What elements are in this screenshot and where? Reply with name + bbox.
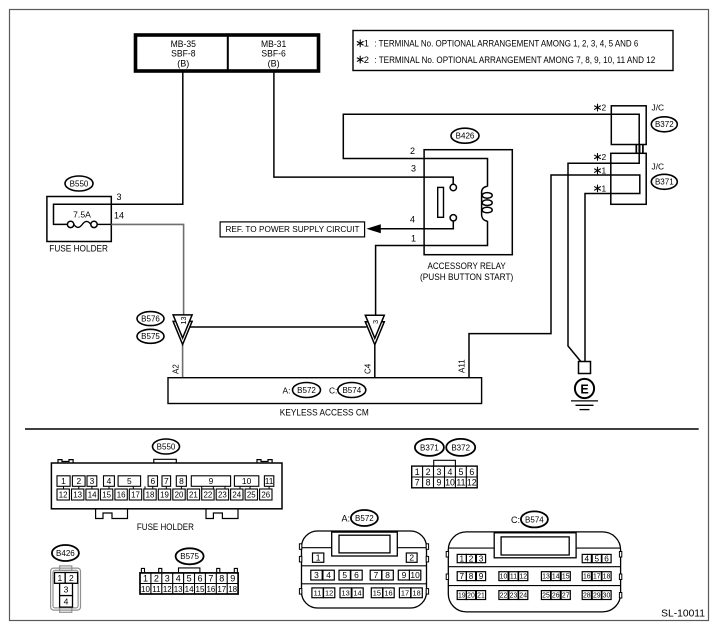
svg-text:A11: A11 (458, 359, 467, 373)
wire in-line connector to terminal A2 (gray) (182, 344, 184, 378)
svg-text:3: 3 (90, 476, 95, 486)
REF. TO POWER SUPPLY CIRCUIT box (220, 222, 365, 237)
wire joining the two in-line connector symbols (190, 326, 367, 328)
svg-text:7: 7 (374, 570, 379, 580)
ground symbol E (575, 379, 594, 398)
svg-text:A:: A: (283, 385, 291, 395)
svg-text:17: 17 (593, 574, 601, 581)
svg-text:23: 23 (218, 490, 227, 499)
connector label B574 (schematic) (338, 383, 366, 398)
relay B426 box (424, 150, 512, 255)
wire fuse holder pin 14 to in-line connector B576/B575 pin 13 (gray) (97, 223, 111, 225)
svg-text:SBF-8: SBF-8 (171, 49, 195, 59)
svg-text:1: 1 (61, 476, 66, 486)
svg-text:9: 9 (479, 572, 484, 581)
svg-text:MB-35: MB-35 (171, 39, 196, 49)
connector label B372 (651, 117, 677, 132)
in-line connector B576/B575 pin 13 (triangle) (173, 315, 192, 345)
svg-text:J/C: J/C (652, 103, 665, 113)
svg-text:3: 3 (64, 585, 69, 595)
wire MB-35 SBF-8 to fuse holder pin 3 (54, 72, 183, 224)
svg-text:18: 18 (146, 490, 155, 499)
svg-text:1: 1 (411, 234, 416, 244)
svg-text:KEYLESS ACCESS CM: KEYLESS ACCESS CM (280, 407, 369, 417)
svg-text:4: 4 (326, 570, 331, 580)
svg-text:13: 13 (542, 574, 550, 581)
svg-text:16: 16 (117, 490, 126, 499)
svg-text:17: 17 (217, 585, 226, 594)
svg-text:3: 3 (371, 320, 380, 324)
svg-text:14: 14 (88, 490, 97, 499)
net label *2 (at B372) (595, 104, 601, 111)
svg-text:8: 8 (426, 478, 431, 488)
svg-text:B574: B574 (525, 515, 544, 524)
svg-text:FUSE HOLDER: FUSE HOLDER (49, 244, 108, 254)
svg-text:3: 3 (165, 574, 170, 584)
svg-text:15: 15 (562, 574, 570, 581)
svg-text:21: 21 (189, 490, 198, 499)
connector label B575 (view) (176, 548, 204, 564)
svg-text:B576: B576 (141, 315, 160, 324)
keyless access CM box (168, 378, 482, 404)
svg-text:14: 14 (552, 574, 560, 581)
svg-text:12: 12 (467, 478, 477, 488)
svg-text:C4: C4 (364, 363, 373, 374)
svg-text:SL-10011: SL-10011 (661, 609, 705, 620)
svg-text:26: 26 (261, 490, 270, 499)
svg-text:5: 5 (127, 476, 132, 486)
svg-text:13: 13 (174, 585, 183, 594)
svg-text:ACCESSORY RELAY: ACCESSORY RELAY (428, 261, 506, 271)
connector label B371 (view) (415, 439, 444, 456)
svg-text:7.5A: 7.5A (73, 210, 91, 220)
B572 view row C pins (312, 588, 422, 598)
svg-text:7: 7 (208, 574, 213, 584)
svg-text:10: 10 (500, 574, 508, 581)
B550 view row 2 pins (57, 489, 272, 500)
svg-text:2: 2 (426, 467, 431, 477)
B574 view row 2 pins (457, 572, 611, 581)
B572 view row B pins (311, 570, 421, 580)
ground terminal block (579, 362, 591, 374)
B371/B372 grid row 1 pins (415, 467, 475, 477)
wire relay pin 4 to power supply circuit (arrow) (369, 221, 454, 229)
svg-text:8: 8 (219, 574, 224, 584)
in-line connector pin 3 (triangle) (365, 315, 384, 345)
svg-text:9: 9 (437, 478, 442, 488)
connector view B572 (299, 531, 428, 608)
connector label B426 (451, 128, 479, 143)
B575 view row 1 pins (143, 574, 235, 584)
svg-text:REF. TO POWER SUPPLY CIRCUIT: REF. TO POWER SUPPLY CIRCUIT (226, 224, 361, 234)
svg-text:13: 13 (341, 589, 349, 598)
svg-text:24: 24 (232, 490, 241, 499)
svg-text:5: 5 (595, 555, 600, 564)
svg-text:24: 24 (519, 593, 527, 600)
svg-text:28: 28 (583, 593, 591, 600)
svg-text:19: 19 (160, 490, 169, 499)
svg-text:4: 4 (448, 467, 453, 477)
svg-text:B372: B372 (451, 443, 470, 452)
svg-text:B426: B426 (56, 549, 75, 558)
svg-text:18: 18 (412, 589, 420, 598)
svg-text:11: 11 (314, 589, 322, 598)
svg-text:8: 8 (179, 476, 184, 486)
B371/B372 grid row 2 pins (415, 478, 477, 488)
svg-text:17: 17 (131, 490, 140, 499)
svg-text:1: 1 (602, 166, 607, 176)
svg-text:(B): (B) (268, 59, 280, 69)
svg-text:C:: C: (329, 385, 337, 395)
connector label B426 (view) (52, 545, 79, 561)
svg-text:B550: B550 (70, 179, 89, 188)
svg-text:30: 30 (603, 593, 611, 600)
svg-text:25: 25 (247, 490, 256, 499)
svg-text:11: 11 (456, 478, 465, 488)
svg-text:E: E (580, 382, 588, 396)
B574 view row 1 pins (457, 554, 611, 563)
svg-text:: TERMINAL No. OPTIONAL ARRANG: : TERMINAL No. OPTIONAL ARRANGEMENT AMON… (374, 54, 655, 65)
svg-text:11: 11 (265, 476, 274, 486)
svg-text:1: 1 (316, 553, 321, 563)
svg-text:7: 7 (164, 476, 169, 486)
svg-text:B550: B550 (157, 442, 176, 451)
svg-text:15: 15 (102, 490, 111, 499)
junction connector B372 box (611, 106, 646, 145)
svg-text:6: 6 (604, 555, 609, 564)
svg-text:5: 5 (458, 467, 463, 477)
svg-text:10: 10 (410, 570, 420, 580)
svg-text:12: 12 (163, 585, 172, 594)
connector label B575 (137, 329, 164, 343)
connector label B572 (schematic) (293, 383, 321, 398)
svg-text:12: 12 (59, 490, 68, 499)
svg-text:19: 19 (458, 593, 466, 600)
svg-text:23: 23 (510, 593, 518, 600)
svg-text:(PUSH BUTTON START): (PUSH BUTTON START) (420, 272, 513, 282)
wire MB-31 SBF-6 to accessory relay pin 3 (274, 72, 453, 184)
fuse box MB-35 / MB-31 (SBF) (136, 35, 319, 71)
svg-text:2: 2 (69, 573, 74, 583)
svg-text:2: 2 (409, 553, 414, 563)
svg-text:4: 4 (410, 215, 415, 225)
svg-text:7: 7 (415, 478, 420, 488)
svg-text:8: 8 (469, 572, 474, 581)
connector label B372 (view) (446, 439, 475, 456)
svg-text:B575: B575 (180, 552, 199, 561)
svg-text:5: 5 (342, 570, 347, 580)
svg-text:1: 1 (460, 555, 465, 564)
svg-text:9: 9 (230, 574, 235, 584)
svg-text:4: 4 (64, 596, 69, 606)
wire terminal A11 to J/C B371 and to ground (469, 175, 640, 378)
connector view B575 (140, 568, 238, 594)
wire relay pin 2 (coil) to J/C B372 (343, 114, 639, 361)
svg-text:2: 2 (602, 152, 607, 162)
svg-text:14: 14 (185, 585, 194, 594)
B572 view row A pins (313, 553, 418, 563)
net label *1 (upper) (595, 167, 601, 174)
junction connector B371 box (611, 153, 646, 204)
svg-text:10: 10 (141, 585, 150, 594)
svg-text:20: 20 (467, 593, 475, 600)
svg-text:3: 3 (117, 192, 122, 202)
svg-text:11: 11 (510, 574, 517, 581)
svg-text:9: 9 (402, 570, 407, 580)
svg-text:12: 12 (325, 589, 333, 598)
connector label B550 (65, 176, 93, 191)
svg-text:B371: B371 (420, 443, 439, 452)
svg-text:20: 20 (175, 490, 184, 499)
svg-text:MB-31: MB-31 (261, 39, 286, 49)
svg-text:6: 6 (469, 467, 474, 477)
svg-text:2: 2 (410, 146, 415, 156)
svg-text:J/C: J/C (652, 162, 665, 172)
svg-text:4: 4 (107, 476, 112, 486)
svg-text:3: 3 (314, 570, 319, 580)
svg-text:18: 18 (603, 574, 611, 581)
B550 view row connector ticks (64, 486, 270, 489)
svg-text:2: 2 (469, 555, 474, 564)
svg-text:3: 3 (411, 164, 416, 174)
svg-text:29: 29 (593, 593, 601, 600)
svg-text:B575: B575 (141, 332, 160, 341)
B550 view row 1 pins (57, 476, 274, 487)
svg-text:2: 2 (76, 476, 81, 486)
svg-text:12: 12 (519, 574, 527, 581)
svg-text:16: 16 (206, 585, 215, 594)
svg-text:: TERMINAL No. OPTIONAL ARRANG: : TERMINAL No. OPTIONAL ARRANGEMENT AMON… (374, 38, 638, 49)
svg-text:6: 6 (354, 570, 359, 580)
svg-text:25: 25 (542, 593, 550, 600)
svg-text:8: 8 (385, 570, 390, 580)
fuse 7.5A symbol (67, 210, 97, 228)
svg-text:C:: C: (511, 515, 520, 525)
svg-text:2: 2 (154, 574, 159, 584)
svg-text:17: 17 (401, 589, 409, 598)
svg-text:22: 22 (204, 490, 213, 499)
svg-text:2: 2 (364, 54, 369, 65)
svg-text:1: 1 (58, 573, 63, 583)
net label *2 (at B371) (595, 154, 601, 161)
svg-text:7: 7 (460, 572, 465, 581)
svg-text:6: 6 (197, 574, 202, 584)
relay coil (482, 186, 488, 221)
svg-text:13: 13 (179, 317, 188, 325)
svg-text:6: 6 (150, 476, 155, 486)
connector label B574 (view) (521, 511, 548, 527)
svg-text:27: 27 (562, 593, 570, 600)
ground hatch (571, 401, 598, 410)
svg-text:5: 5 (187, 574, 192, 584)
svg-text:B426: B426 (456, 132, 475, 141)
note box: terminal arrangement notes (353, 31, 673, 71)
svg-text:(B): (B) (177, 59, 189, 69)
svg-text:A:: A: (342, 513, 351, 523)
svg-text:21: 21 (477, 593, 485, 600)
svg-text:16: 16 (583, 574, 591, 581)
J/C bus bar links (636, 145, 643, 154)
svg-text:1: 1 (143, 574, 148, 584)
svg-text:9: 9 (209, 476, 214, 486)
svg-text:14: 14 (114, 211, 124, 221)
svg-text:1: 1 (415, 467, 420, 477)
svg-text:B372: B372 (655, 120, 674, 129)
svg-text:1: 1 (364, 38, 369, 49)
connector label B550 (view) (153, 439, 180, 454)
section separator line (25, 428, 699, 430)
svg-text:14: 14 (353, 589, 361, 598)
svg-text:10: 10 (445, 478, 455, 488)
svg-text:B572: B572 (355, 514, 374, 523)
svg-text:15: 15 (196, 585, 205, 594)
svg-text:3: 3 (437, 467, 442, 477)
svg-text:B574: B574 (342, 386, 361, 395)
svg-text:1: 1 (602, 183, 607, 193)
svg-text:10: 10 (242, 476, 252, 486)
fuse holder box (47, 197, 111, 242)
svg-text:B572: B572 (297, 386, 316, 395)
relay contact circles (450, 184, 456, 190)
connector view B574 (446, 532, 622, 612)
connector label B371 (651, 174, 677, 189)
svg-text:26: 26 (552, 593, 560, 600)
connector label B576 (137, 312, 164, 326)
wire relay pin 1 to in-line connector pin 3 and terminal C4 (376, 221, 488, 315)
svg-text:FUSE HOLDER: FUSE HOLDER (137, 522, 194, 532)
connector label B572 (view) (351, 510, 378, 526)
svg-text:B371: B371 (655, 178, 674, 187)
connector view B371/B372 grid (412, 460, 478, 488)
svg-text:SBF-6: SBF-6 (261, 49, 285, 59)
net label *1 (lower) (595, 185, 601, 192)
svg-text:11: 11 (152, 585, 161, 594)
connector view B426 (51, 566, 81, 612)
B574 view row 3 pins (457, 591, 611, 600)
svg-text:A2: A2 (172, 364, 181, 374)
relay switch bar (438, 187, 444, 217)
svg-text:22: 22 (500, 593, 508, 600)
svg-text:4: 4 (585, 555, 590, 564)
svg-text:16: 16 (384, 589, 392, 598)
svg-text:13: 13 (73, 490, 82, 499)
B575 view row 2 pins (141, 585, 238, 594)
svg-text:15: 15 (373, 589, 381, 598)
svg-text:2: 2 (602, 103, 607, 113)
svg-text:4: 4 (176, 574, 181, 584)
svg-text:18: 18 (228, 585, 237, 594)
svg-text:3: 3 (479, 555, 484, 564)
